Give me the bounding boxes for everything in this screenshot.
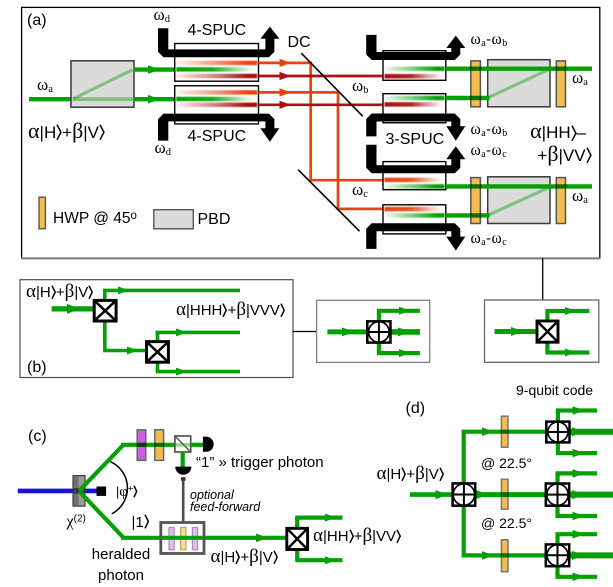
3-SPUC crystal R1 bbox=[383, 51, 446, 81]
panel (a) frame bbox=[22, 7, 600, 258]
panel d input beam (wire) bbox=[410, 492, 453, 497]
ff waveplate pale purple 1 bbox=[169, 528, 174, 550]
legend PBD symbol bbox=[154, 210, 194, 229]
gate D0 (circle-cross) bbox=[453, 483, 476, 505]
lower green output of PBD (wire) bbox=[134, 97, 176, 101]
red beam A vertical segment (wire) bbox=[309, 62, 312, 182]
pump bracket above crystal R3 with arrow ω_a-ω_c bbox=[366, 145, 460, 174]
dark red beam B to 3-SPUC crystal 1 (wire) bbox=[259, 75, 385, 78]
legend HWP symbol bbox=[39, 197, 45, 229]
3-SPUC crystal R3 bbox=[383, 162, 446, 190]
green beam R3 to output ω_a (wire) bbox=[446, 184, 592, 188]
entangler gate 1 (boxed X) bbox=[94, 300, 116, 321]
right box output up (wire) bbox=[545, 310, 549, 323]
gate output up (wire) bbox=[555, 473, 559, 484]
chi(2) crystal bbox=[73, 476, 85, 507]
middle box output up (wire) bbox=[377, 309, 381, 322]
dark red beam D to 3-SPUC crystal 2 (wire) bbox=[259, 103, 385, 106]
gate output mid (wire) bbox=[568, 552, 613, 558]
panel (b) box bbox=[20, 280, 293, 378]
bottom branch beam (wire) bbox=[462, 553, 546, 557]
entangled state arc bbox=[110, 462, 127, 514]
PBD input beam displacer bbox=[71, 61, 134, 107]
middle box through output (wire) bbox=[390, 329, 420, 335]
entangler gate 2 output down (wire) bbox=[156, 362, 160, 372]
gate output down (wire) bbox=[555, 565, 559, 577]
pump bracket below crystal R2 with arrow ω_a-ω_b bbox=[366, 114, 460, 137]
4-SPUC crystal 1 bbox=[175, 44, 259, 82]
entangler gate 2 (boxed X) bbox=[147, 342, 169, 363]
panel c entangler gate (boxed X) bbox=[287, 528, 308, 549]
upper green output of PBD (wire) bbox=[134, 67, 176, 71]
feed-forward waveplate box bbox=[161, 523, 204, 554]
pump bracket above 4-SPUC crystal 1 with arrow bbox=[158, 28, 274, 57]
3-SPUC crystal R4 bbox=[383, 205, 446, 234]
middle branch beam (wire) bbox=[475, 492, 546, 497]
HWP after upper PBD bbox=[556, 61, 565, 107]
crystal R3 green beam (wire) bbox=[385, 184, 445, 188]
ff waveplate pale purple 2 bbox=[192, 528, 197, 550]
gate output mid (wire) bbox=[569, 429, 613, 435]
right box gate (boxed X) bbox=[537, 321, 558, 342]
pump bracket below crystal R4 with arrow ω_a-ω_c bbox=[366, 223, 460, 249]
panel c entangler output down (wire) bbox=[295, 549, 299, 560]
pump beam blue (wire) bbox=[18, 489, 100, 494]
top branch beam (wire) bbox=[462, 430, 547, 434]
right encoder box bbox=[485, 300, 599, 362]
detector down bbox=[175, 467, 191, 475]
crystal R1 downconverted green beam (wire) bbox=[385, 67, 445, 71]
dichroic mirror DC upper bbox=[301, 53, 363, 116]
crystal R4 red beam in (wire) bbox=[385, 207, 445, 211]
HWP @22.5 bottom bbox=[501, 540, 508, 572]
input beam (wire) bbox=[52, 306, 95, 311]
gate output down (wire) bbox=[555, 505, 559, 516]
red beam A to 3-SPUC crystal 3 (wire) bbox=[309, 179, 384, 182]
pump bracket below 4-SPUC crystal 2 with arrow bbox=[158, 114, 274, 141]
crystal R1 dark red beam in (wire) bbox=[385, 74, 445, 78]
HWP before lower PBD bbox=[471, 178, 481, 224]
red beam A ω_b from crystal1 (wire) bbox=[259, 62, 312, 65]
waveplate purple bbox=[137, 430, 146, 461]
crystal R4 green beam (wire) bbox=[385, 213, 445, 217]
photon pair beam up (wire) bbox=[80, 445, 124, 491]
panel (a) frame bottom edge bbox=[21, 257, 600, 259]
beam PBS down to detector (wire) bbox=[181, 452, 185, 467]
lower PBD output combiner bbox=[488, 177, 550, 224]
middle box output down (wire) bbox=[377, 342, 381, 353]
gate D3 (circle-cross) bbox=[546, 544, 569, 566]
HWP @22.5 middle bbox=[501, 479, 508, 509]
green beam R2 into PBD (wire) bbox=[446, 96, 490, 100]
crystal 2 pump-depleted green beam (wire) bbox=[176, 97, 257, 101]
pale diagonal beam upper PBD (wire) bbox=[489, 69, 550, 97]
crystal 2 upconverted beam ω_c (wire) bbox=[176, 90, 257, 94]
input beam ω_a (wire) bbox=[29, 97, 73, 101]
panel d trunk beam (wire) bbox=[462, 432, 466, 556]
red beam C vertical segment (wire) bbox=[337, 91, 340, 210]
4-SPUC crystal 2 bbox=[175, 86, 259, 124]
connector panel a to right box (wire) bbox=[542, 258, 544, 300]
upper PBD output combiner bbox=[488, 60, 550, 107]
gate D1 (circle-cross) bbox=[546, 422, 569, 443]
HWP @22.5 top bbox=[501, 416, 508, 447]
photon pair beam down (wire) bbox=[80, 492, 124, 538]
3-SPUC crystal R2 bbox=[383, 94, 446, 123]
green beam R4 into PBD (wire) bbox=[446, 213, 490, 217]
entangler gate 2 output up (wire) bbox=[156, 331, 160, 342]
pale transmitted beam in PBD (wire) bbox=[73, 97, 134, 101]
trigger detector right bbox=[203, 437, 214, 452]
beam dump bbox=[97, 487, 107, 496]
crystal R3 red beam in (wire) bbox=[385, 178, 445, 182]
crystal 1 upconverted beam ω_b (wire) bbox=[176, 61, 257, 65]
pump bracket above crystal R1 with arrow ω_a-ω_b bbox=[366, 35, 460, 60]
gate output up (wire) bbox=[556, 411, 560, 423]
pale transmitted beam in PBS (wire) bbox=[176, 443, 191, 446]
connector panel b to middle box (wire) bbox=[293, 331, 317, 333]
panel c entangler output up (wire) bbox=[295, 516, 299, 529]
redraw lower arm beam across ff box (wire) bbox=[161, 536, 204, 540]
gate D2 (circle-cross) bbox=[546, 484, 569, 506]
crystal 1 pump-depleted green beam (wire) bbox=[176, 67, 257, 71]
gate output up (wire) bbox=[555, 534, 559, 545]
right box input beam (wire) bbox=[495, 329, 538, 334]
lower arm beam (wire) bbox=[121, 536, 287, 540]
green beam R1 to output ω_a (wire) bbox=[446, 66, 592, 70]
beam PBS to detector (wire) bbox=[190, 443, 203, 447]
upper arm beam (wire) bbox=[121, 443, 176, 447]
entangler gate 1 output up (wire) bbox=[103, 289, 107, 300]
entangler gate 1 output down (wire) bbox=[103, 321, 107, 351]
gate output down (wire) bbox=[556, 441, 560, 453]
PBS cube bbox=[175, 436, 191, 452]
middle box input beam (wire) bbox=[327, 329, 368, 334]
HWP before upper PBD bbox=[471, 61, 481, 107]
dichroic mirror DC lower bbox=[298, 170, 359, 232]
waveplate orange bbox=[155, 430, 164, 461]
feed-forward signal line (wire) bbox=[182, 480, 185, 522]
pale displaced beam in PBD (wire) bbox=[74, 70, 133, 99]
crystal 1 upconverted beam dark (wire) bbox=[176, 74, 257, 78]
gate output mid (wire) bbox=[568, 492, 613, 498]
middle box gate (circle-cross) bbox=[367, 321, 390, 342]
crystal R2 green beam (wire) bbox=[385, 96, 445, 100]
red beam C to 3-SPUC crystal 4 (wire) bbox=[337, 208, 384, 211]
red beam C ω_c from crystal2 (wire) bbox=[259, 91, 340, 94]
crystal 2 upconverted beam dark (wire) bbox=[176, 103, 257, 107]
HWP after lower PBD bbox=[556, 178, 565, 224]
right box output down (wire) bbox=[545, 342, 549, 353]
pale diagonal beam lower PBD (wire) bbox=[489, 187, 550, 215]
ff waveplate pale orange bbox=[181, 528, 186, 550]
crystal R2 dark red beam in (wire) bbox=[385, 102, 445, 106]
middle encoder box bbox=[317, 300, 430, 362]
